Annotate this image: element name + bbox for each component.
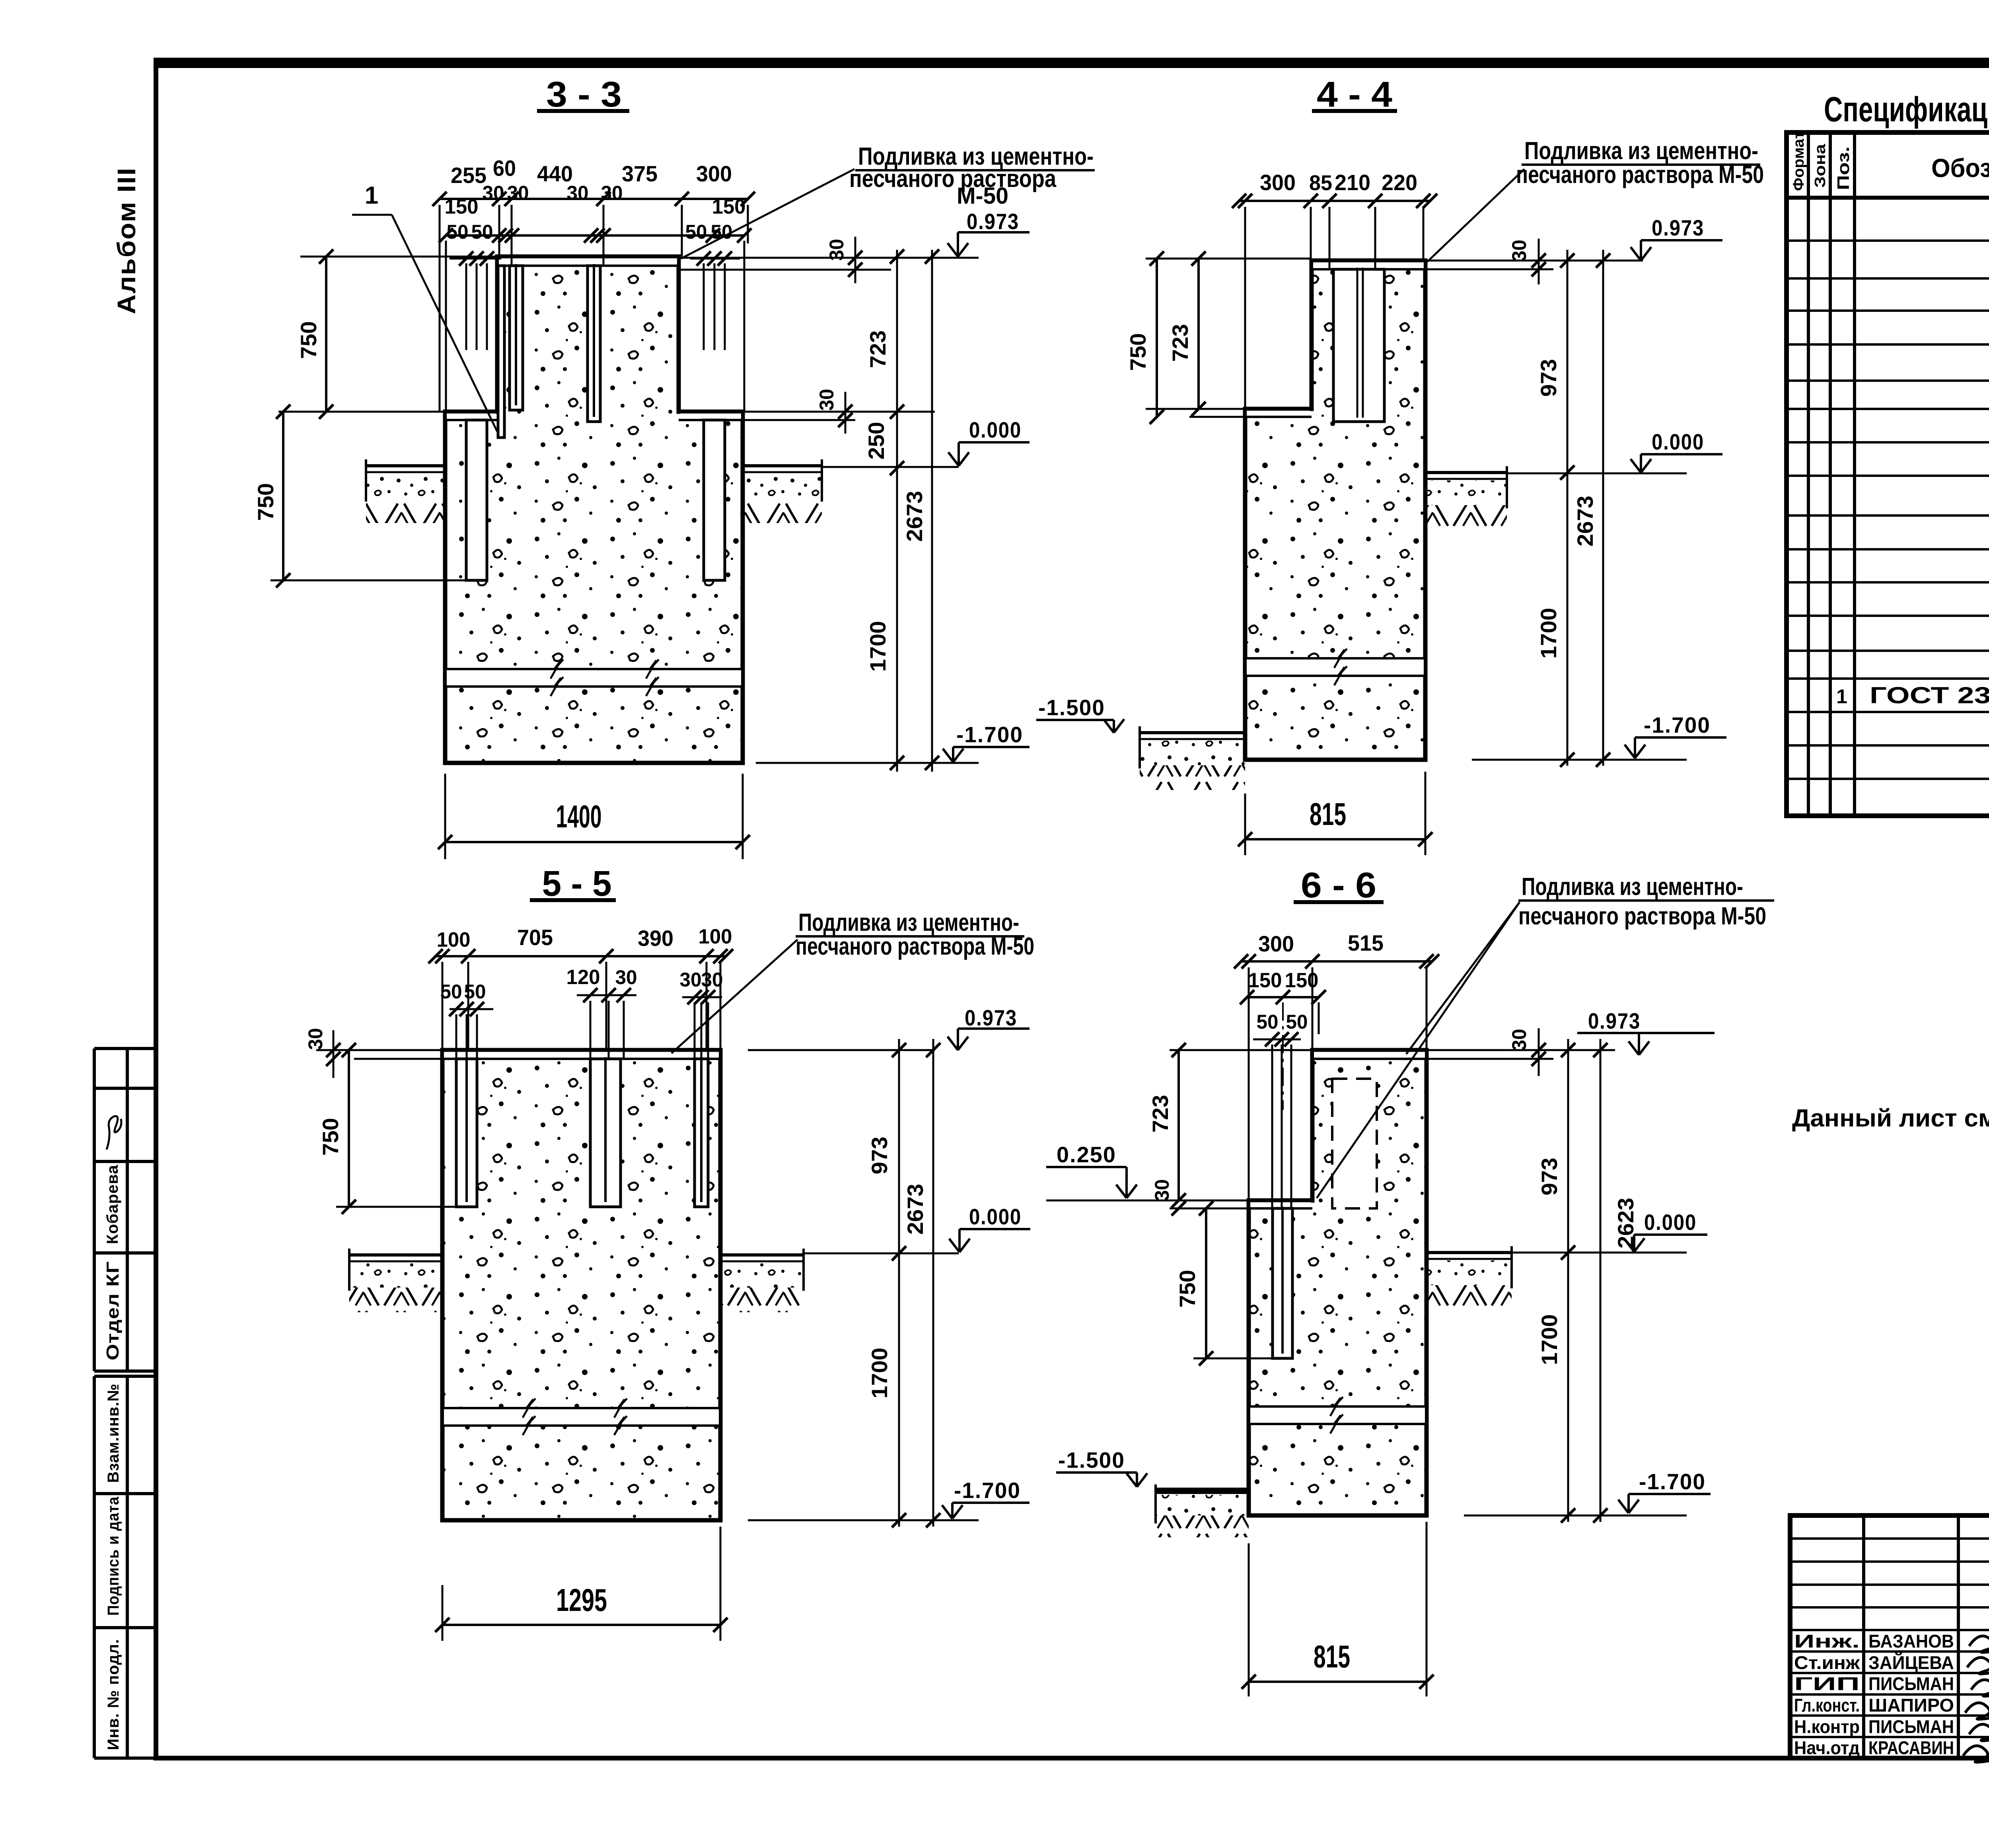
- svg-text:100: 100: [437, 928, 471, 951]
- svg-text:50: 50: [1286, 1011, 1308, 1033]
- svg-text:песчаного раствора М-50: песчаного раствора М-50: [796, 933, 1034, 960]
- svg-text:50: 50: [447, 221, 469, 243]
- svg-text:375: 375: [622, 161, 658, 186]
- svg-text:30: 30: [507, 182, 529, 204]
- svg-text:0.973: 0.973: [1588, 1008, 1641, 1033]
- svg-text:973: 973: [1537, 1158, 1562, 1196]
- svg-text:4 - 4: 4 - 4: [1317, 75, 1392, 115]
- svg-text:Инж.: Инж.: [1794, 1631, 1860, 1652]
- svg-text:50: 50: [1257, 1011, 1279, 1033]
- svg-text:30: 30: [1151, 1179, 1173, 1201]
- svg-text:750: 750: [318, 1118, 343, 1156]
- svg-text:50: 50: [471, 221, 493, 243]
- svg-text:300: 300: [1258, 931, 1294, 956]
- svg-text:1700: 1700: [865, 621, 890, 672]
- svg-text:Кобарева: Кобарева: [104, 1165, 121, 1244]
- svg-text:-1.700: -1.700: [956, 722, 1023, 747]
- svg-text:М-50: М-50: [957, 183, 1008, 209]
- svg-text:30: 30: [483, 182, 504, 204]
- svg-text:ЗАЙЦЕВА: ЗАЙЦЕВА: [1868, 1652, 1954, 1673]
- svg-text:2673: 2673: [1573, 496, 1598, 547]
- svg-text:1700: 1700: [1536, 608, 1561, 659]
- svg-text:-1.700: -1.700: [1639, 1469, 1706, 1494]
- svg-text:1: 1: [365, 182, 378, 209]
- svg-text:0.973: 0.973: [965, 1005, 1017, 1030]
- svg-text:1700: 1700: [1537, 1314, 1562, 1365]
- svg-text:30: 30: [1508, 240, 1530, 262]
- svg-text:ПИСЬМАН: ПИСЬМАН: [1868, 1716, 1954, 1737]
- svg-text:Подливка из цементно-: Подливка из цементно-: [1524, 137, 1758, 165]
- svg-text:50: 50: [440, 980, 462, 1003]
- svg-text:150: 150: [712, 195, 746, 218]
- svg-text:255: 255: [451, 163, 487, 188]
- svg-text:30: 30: [815, 389, 838, 411]
- svg-text:Спецификация на фундаменты: Спецификация на фундаменты под оборудова…: [1824, 89, 1989, 129]
- svg-text:Нач.отд: Нач.отд: [1794, 1737, 1860, 1758]
- svg-text:705: 705: [517, 925, 553, 950]
- svg-text:-1.700: -1.700: [954, 1478, 1021, 1503]
- svg-text:750: 750: [1175, 1270, 1200, 1308]
- svg-text:2673: 2673: [902, 491, 927, 542]
- svg-text:Инв. № подл.: Инв. № подл.: [105, 1639, 122, 1750]
- svg-text:ШАПИРО: ШАПИРО: [1868, 1695, 1954, 1716]
- svg-text:-1.500: -1.500: [1058, 1447, 1125, 1473]
- svg-text:150: 150: [445, 195, 479, 218]
- svg-text:ПИСЬМАН: ПИСЬМАН: [1868, 1673, 1954, 1694]
- svg-text:песчаного раствора М-50: песчаного раствора М-50: [1518, 903, 1766, 930]
- svg-text:250: 250: [864, 422, 889, 460]
- svg-text:Взам.инв.№: Взам.инв.№: [105, 1383, 122, 1483]
- svg-text:30: 30: [1508, 1029, 1530, 1051]
- svg-text:0.000: 0.000: [969, 417, 1022, 442]
- svg-text:песчаного раствора: песчаного раствора: [849, 165, 1056, 193]
- svg-text:Зона: Зона: [1812, 144, 1829, 188]
- svg-text:815: 815: [1310, 796, 1346, 832]
- svg-text:30: 30: [601, 182, 623, 204]
- svg-text:210: 210: [1335, 170, 1370, 195]
- svg-text:0.000: 0.000: [1644, 1210, 1697, 1235]
- svg-text:150: 150: [1248, 969, 1282, 992]
- svg-text:КРАСАВИН: КРАСАВИН: [1868, 1737, 1954, 1758]
- svg-text:50: 50: [711, 221, 733, 243]
- svg-text:1400: 1400: [556, 799, 602, 834]
- svg-text:0.250: 0.250: [1057, 1142, 1116, 1167]
- svg-text:515: 515: [1348, 930, 1384, 955]
- svg-text:750: 750: [1125, 333, 1150, 371]
- svg-text:Подливка из цементно-: Подливка из цементно-: [1522, 873, 1743, 901]
- svg-text:5 - 5: 5 - 5: [542, 864, 612, 904]
- svg-text:ГИП: ГИП: [1794, 1673, 1860, 1694]
- svg-text:ГОСТ 23279-85: ГОСТ 23279-85: [1870, 683, 1989, 708]
- svg-text:30: 30: [680, 969, 702, 991]
- svg-text:Подливка из цементно-: Подливка из цементно-: [798, 909, 1019, 936]
- svg-text:723: 723: [1168, 324, 1193, 362]
- svg-text:Альбом III: Альбом III: [112, 167, 141, 314]
- svg-text:0.000: 0.000: [1652, 429, 1704, 454]
- svg-text:300: 300: [1260, 170, 1296, 195]
- svg-text:2673: 2673: [903, 1184, 928, 1235]
- svg-text:0.973: 0.973: [967, 209, 1019, 234]
- svg-text:50: 50: [685, 221, 707, 243]
- svg-text:85: 85: [1309, 171, 1332, 195]
- svg-text:1: 1: [1836, 685, 1847, 708]
- svg-text:723: 723: [1148, 1095, 1173, 1133]
- svg-text:-1.700: -1.700: [1644, 712, 1711, 737]
- svg-text:30: 30: [615, 966, 637, 988]
- svg-text:30: 30: [304, 1028, 327, 1050]
- svg-text:300: 300: [696, 161, 732, 186]
- svg-text:БАЗАНОВ: БАЗАНОВ: [1868, 1631, 1954, 1652]
- svg-text:815: 815: [1314, 1639, 1350, 1674]
- svg-text:песчаного раствора М-50: песчаного раствора М-50: [1516, 161, 1764, 189]
- svg-text:3 - 3: 3 - 3: [546, 75, 622, 115]
- svg-text:Данный лист см. совместно: Данный лист см. совместно с листом 25: [1792, 1105, 1989, 1132]
- svg-text:723: 723: [865, 331, 890, 368]
- svg-text:Подпись и дата: Подпись и дата: [105, 1496, 122, 1616]
- svg-text:100: 100: [699, 925, 732, 948]
- svg-text:0.000: 0.000: [969, 1204, 1022, 1229]
- svg-text:150: 150: [1285, 969, 1319, 992]
- svg-text:-1.500: -1.500: [1038, 695, 1105, 720]
- svg-text:1700: 1700: [867, 1348, 892, 1399]
- svg-text:750: 750: [253, 483, 278, 521]
- svg-text:1295: 1295: [556, 1582, 607, 1618]
- svg-text:Гл.конст.: Гл.конст.: [1794, 1695, 1860, 1716]
- svg-text:Отдел КГ: Отдел КГ: [103, 1261, 123, 1360]
- svg-text:6 - 6: 6 - 6: [1301, 866, 1376, 905]
- svg-text:750: 750: [296, 321, 321, 359]
- svg-text:30: 30: [567, 182, 589, 204]
- svg-text:973: 973: [867, 1137, 892, 1175]
- svg-text:973: 973: [1536, 359, 1561, 397]
- svg-text:Ст.инж: Ст.инж: [1794, 1652, 1860, 1673]
- svg-text:Обозначение: Обозначение: [1931, 153, 1989, 183]
- svg-text:390: 390: [638, 926, 673, 951]
- svg-text:0.973: 0.973: [1652, 215, 1704, 240]
- svg-text:220: 220: [1382, 170, 1417, 195]
- svg-text:30: 30: [825, 239, 848, 261]
- svg-text:60: 60: [493, 156, 516, 181]
- svg-text:120: 120: [566, 966, 600, 989]
- svg-text:Формат: Формат: [1790, 131, 1807, 191]
- svg-text:Н.контр: Н.контр: [1794, 1716, 1860, 1737]
- svg-text:Поз.: Поз.: [1834, 146, 1853, 190]
